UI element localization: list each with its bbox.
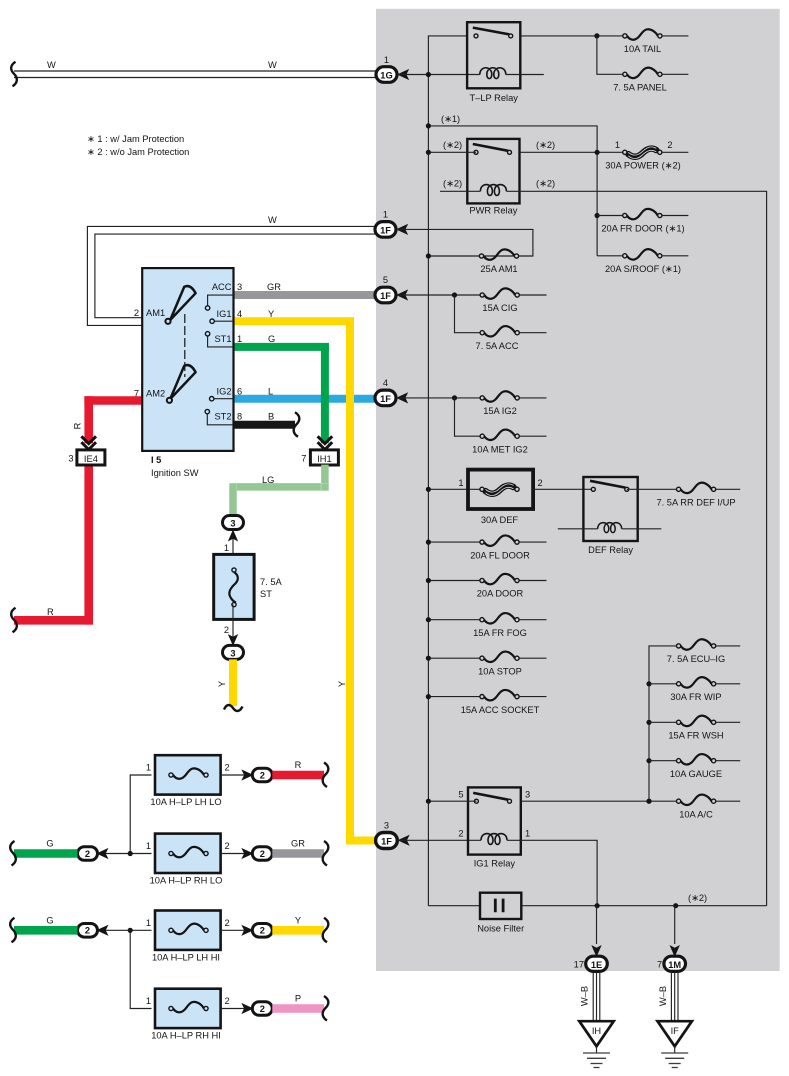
AM2 contact lever (167, 365, 196, 403)
IG1 contact (210, 319, 233, 323)
fuse 15A FR WSH (646, 720, 651, 725)
connector 3 (upper) (223, 516, 244, 530)
wire main trunk from 1G (428, 36, 467, 906)
svg-text:1: 1 (384, 55, 389, 65)
fuse 10A TAIL (623, 29, 662, 39)
svg-text:17: 17 (574, 960, 584, 970)
svg-text:2: 2 (260, 770, 265, 780)
branch wire pin1 pair (130, 775, 151, 854)
label 7.5A ST (260, 577, 283, 599)
arrow into connector (96, 848, 108, 859)
svg-text:IG1: IG1 (217, 309, 232, 319)
svg-text:ACC: ACC (212, 282, 232, 292)
wire R (272, 771, 324, 780)
fuse 30A DEF element (480, 484, 519, 496)
wire trunk to IG1 contact (428, 800, 476, 802)
wire LG (233, 465, 325, 516)
connector 1M (664, 956, 686, 971)
svg-text:1F: 1F (381, 837, 392, 847)
svg-text:IG2: IG2 (217, 387, 232, 397)
svg-text:IH1: IH1 (317, 454, 331, 464)
svg-text:L: L (268, 387, 273, 397)
wire break curl (B end) (294, 412, 300, 437)
svg-text:∗ 1 : w/ Jam Protection: ∗ 1 : w/ Jam Protection (87, 134, 184, 144)
wire G (14, 926, 78, 935)
svg-text:2: 2 (225, 841, 230, 851)
svg-text:Y: Y (268, 309, 274, 319)
fuse 10A H–LP RH HI element (169, 1002, 208, 1012)
wire break curl (Y) (323, 918, 329, 943)
relay PWR coil (480, 185, 506, 196)
svg-text:7. 5A ECU–IG: 7. 5A ECU–IG (667, 654, 725, 664)
svg-text:1F: 1F (380, 394, 391, 404)
svg-text:2: 2 (667, 140, 672, 150)
svg-text:1: 1 (146, 918, 151, 928)
wire break curl (W left end) (11, 62, 17, 87)
fuse 15A FR FOG (428, 619, 480, 621)
svg-text:7. 5A: 7. 5A (260, 577, 283, 587)
wire 30A DEF to DEF relay (533, 488, 593, 490)
wire to left connector 2 (98, 929, 131, 931)
wire W to AM1 (hollow) (87, 226, 375, 325)
wire break squiggle (Y end) (224, 705, 243, 711)
relay PWR contact (473, 144, 512, 154)
svg-text:10A STOP: 10A STOP (478, 666, 522, 676)
svg-text:Y: Y (217, 681, 227, 687)
wire B (ST2) (233, 421, 295, 429)
svg-text:3: 3 (525, 790, 530, 800)
relay T-LP body (467, 22, 520, 88)
junction (594, 33, 599, 38)
svg-text:10A H–LP RH HI: 10A H–LP RH HI (151, 1031, 221, 1041)
fuse 20A FL DOOR (428, 541, 480, 543)
arrow into connector (241, 1003, 253, 1014)
fuse 25A AM1 (479, 249, 518, 259)
svg-text:1: 1 (458, 478, 463, 488)
svg-text:2: 2 (225, 918, 230, 928)
ground symbol (674, 1046, 676, 1053)
connector 3 (lower) (223, 645, 244, 659)
svg-text:IH: IH (592, 1026, 601, 1036)
connector 1E (586, 956, 608, 971)
svg-text:2: 2 (85, 849, 90, 859)
svg-text:4: 4 (383, 378, 388, 388)
svg-text:Noise Filter: Noise Filter (477, 924, 524, 934)
svg-text:GR: GR (267, 282, 281, 292)
svg-text:2: 2 (260, 926, 265, 936)
svg-text:6: 6 (237, 387, 242, 397)
svg-text:R: R (295, 760, 302, 770)
svg-text:(∗2): (∗2) (443, 179, 462, 189)
fuse 7.5A PANEL (623, 68, 662, 78)
wire G (ST1) (233, 344, 325, 444)
svg-text:1F: 1F (380, 225, 391, 235)
svg-text:G: G (46, 839, 53, 849)
arrow at 1F5 (396, 289, 408, 300)
fuse 10A H–LP LH HI body (155, 911, 221, 950)
svg-text:25A AM1: 25A AM1 (480, 264, 517, 274)
IG2 contact (210, 397, 234, 401)
wire from ST fuse with down arrow (228, 605, 238, 646)
wire down to 1M (674, 906, 676, 944)
fusebox area background (376, 9, 780, 971)
svg-text:2: 2 (260, 1004, 265, 1014)
fuse 10A H–LP RH LO body (155, 834, 221, 873)
svg-text:7: 7 (301, 454, 306, 464)
svg-text:ST: ST (260, 589, 272, 599)
wire (*1) branch (428, 126, 597, 256)
fuse 10A H–LP LH HI element (169, 924, 208, 934)
junction (128, 928, 133, 933)
svg-text:10A TAIL: 10A TAIL (624, 44, 661, 54)
wire PWR coil line (440, 191, 767, 905)
wire L (IG2) (233, 395, 376, 403)
svg-text:GR: GR (291, 839, 305, 849)
wire break curl (G) (10, 841, 16, 866)
svg-text:20A FL DOOR: 20A FL DOOR (470, 550, 530, 560)
svg-text:IE4: IE4 (84, 454, 98, 464)
wire to connector 2 (right) (221, 929, 245, 931)
svg-text:(∗2): (∗2) (536, 140, 555, 150)
svg-text:2: 2 (225, 763, 230, 773)
wire G (14, 849, 78, 858)
svg-text:LG: LG (262, 475, 274, 485)
svg-text:2: 2 (538, 478, 543, 488)
ground triangle IH (579, 1021, 613, 1046)
svg-text:(∗2): (∗2) (443, 140, 462, 150)
branch to PANEL fuse (597, 36, 623, 74)
junction 1M (673, 903, 678, 908)
connector 1F pin 4 (375, 390, 396, 406)
svg-text:5: 5 (458, 790, 463, 800)
wire 1F3 to IG1 coil (399, 839, 482, 841)
connector 1F pin 3 (376, 833, 398, 849)
wire to left connector 2 (98, 853, 131, 855)
relay DEF body (583, 477, 637, 541)
noise filter capacitor (495, 899, 503, 913)
svg-text:R: R (47, 607, 54, 617)
svg-text:20A DOOR: 20A DOOR (477, 589, 524, 599)
wire GR (ACC) (233, 291, 376, 299)
fuse 15A ACC SOCKET (428, 696, 480, 698)
svg-text:8: 8 (237, 412, 242, 422)
svg-text:1M: 1M (668, 960, 681, 970)
wire to connector 2 (right) (221, 774, 245, 776)
fuse 30A POWER (623, 147, 662, 159)
svg-text:P: P (295, 994, 301, 1004)
wire 1G to trunk (398, 74, 480, 76)
svg-text:2: 2 (225, 996, 230, 1006)
wire W-B triple (593, 971, 600, 1021)
svg-text:2: 2 (85, 926, 90, 936)
wire break curl (R) (323, 763, 329, 788)
ST1 contact (205, 332, 233, 347)
svg-text:2: 2 (224, 625, 229, 635)
svg-text:3: 3 (230, 519, 235, 529)
svg-text:W: W (47, 60, 56, 70)
relay IG1 body (468, 787, 521, 854)
svg-text:W–B: W–B (658, 986, 668, 1006)
junction 1E (595, 903, 600, 908)
svg-text:3: 3 (68, 454, 73, 464)
svg-text:DEF Relay: DEF Relay (588, 545, 633, 555)
svg-text:7. 5A PANEL: 7. 5A PANEL (613, 83, 667, 93)
connector 2 (left, group 1) (78, 847, 98, 861)
svg-text:IF: IF (671, 1026, 680, 1036)
wire W (battery feed, hollow) (14, 71, 377, 78)
switch linkage dashed line (184, 314, 186, 377)
arrow into connector (96, 925, 108, 936)
svg-text:AM1: AM1 (146, 308, 165, 318)
fuse 20A FR DOOR (623, 209, 662, 219)
wire noise filter row (428, 905, 766, 907)
connector 1G pin 1 (376, 67, 397, 83)
wire contact out (520, 35, 623, 37)
fuse 10A GAUGE (646, 758, 651, 763)
arrow at 1F4 (396, 392, 408, 403)
relay PWR body (467, 139, 519, 204)
page arrow into IE4 (81, 436, 96, 449)
wire IG1 coil out (507, 840, 597, 905)
svg-text:G: G (268, 334, 275, 344)
wire trunk to PWR contact (428, 151, 476, 153)
svg-text:3: 3 (237, 282, 242, 292)
junction (426, 72, 431, 77)
svg-text:1: 1 (525, 829, 530, 839)
connector 2 (left, group 2) (78, 924, 98, 938)
wire Y (272, 926, 324, 935)
relay DEF coil (598, 523, 622, 533)
wire Y (IG1) (233, 318, 376, 841)
svg-text:1: 1 (615, 140, 620, 150)
fuse 7. 5A ECU–IG (677, 639, 716, 649)
svg-text:1G: 1G (380, 70, 392, 80)
fuse 10A MET IG2 (480, 430, 519, 440)
wire break curl (P) (323, 996, 329, 1021)
svg-text:2: 2 (260, 849, 265, 859)
svg-text:ST1: ST1 (214, 334, 231, 344)
noise filter body (480, 893, 521, 919)
svg-text:10A MET IG2: 10A MET IG2 (472, 444, 528, 454)
svg-text:1: 1 (146, 841, 151, 851)
fuse 7.5A ACC (480, 326, 519, 336)
svg-text:20A S/ROOF (∗1): 20A S/ROOF (∗1) (605, 264, 681, 274)
svg-text:5: 5 (383, 275, 388, 285)
wire PWR contact to POWER fuse (520, 151, 623, 153)
svg-text:(∗2): (∗2) (688, 893, 707, 903)
note legend (87, 134, 189, 157)
ACC contact (205, 295, 233, 310)
svg-text:7. 5A RR DEF I/UP: 7. 5A RR DEF I/UP (656, 498, 735, 508)
svg-text:1F: 1F (380, 291, 391, 301)
wire trunk to 30A DEF (428, 488, 481, 490)
relay T-LP coil (480, 68, 506, 79)
svg-text:7. 5A ACC: 7. 5A ACC (476, 341, 519, 351)
svg-text:3: 3 (230, 649, 235, 659)
fuse 30A DEF body (468, 470, 533, 509)
svg-text:7: 7 (657, 960, 662, 970)
svg-text:3: 3 (384, 821, 389, 831)
svg-text:W–B: W–B (580, 986, 590, 1006)
wire to ST fuse with up arrow (228, 530, 238, 571)
svg-text:IG1 Relay: IG1 Relay (474, 859, 516, 869)
wire to connector 2 (right) (221, 853, 245, 855)
svg-text:∗ 2 : w/o Jam Protection: ∗ 2 : w/o Jam Protection (87, 147, 189, 157)
svg-text:Y: Y (337, 681, 347, 687)
svg-text:10A H–LP RH LO: 10A H–LP RH LO (150, 876, 223, 886)
connector IE4 (77, 450, 105, 465)
svg-text:15A FR FOG: 15A FR FOG (473, 628, 527, 638)
wire Y (to starter) (229, 659, 237, 706)
svg-text:1: 1 (146, 763, 151, 773)
fuse 7.5A ST element (229, 568, 237, 607)
wire 1F1 to 25A AM1 (397, 229, 533, 256)
svg-text:7: 7 (134, 389, 139, 399)
svg-text:I 5: I 5 (151, 455, 161, 465)
relay DEF coil stubs (558, 528, 662, 530)
svg-text:10A H–LP LH LO: 10A H–LP LH LO (150, 797, 221, 807)
arrow into connector (241, 925, 253, 936)
ST2 contact (205, 409, 233, 424)
relay DEF contact (590, 481, 629, 492)
svg-text:10A A/C: 10A A/C (679, 809, 713, 819)
fuse 20A S/ROOF (623, 249, 662, 259)
junction (128, 851, 133, 856)
svg-text:W: W (268, 215, 277, 225)
connector 2 (right, row 4) (252, 1002, 272, 1016)
svg-text:2: 2 (134, 308, 139, 318)
connector 1F pin 1 (375, 222, 396, 238)
svg-text:10A H–LP LH HI: 10A H–LP LH HI (152, 952, 220, 962)
fuse 10A A/C (646, 799, 651, 804)
svg-text:ST2: ST2 (214, 412, 231, 422)
ground triangle IF (658, 1021, 692, 1046)
fuse 10A H–LP RH HI body (155, 989, 221, 1028)
connector 2 (right, row 2) (252, 847, 272, 861)
fuse 20A DOOR (428, 580, 480, 582)
svg-text:1: 1 (237, 334, 242, 344)
ground symbol (596, 1046, 598, 1053)
wire DEF relay to RR DEF fuse (627, 488, 677, 490)
wire break curl (G) (10, 918, 16, 943)
svg-text:(∗2): (∗2) (536, 179, 555, 189)
wire 1F5 to fuses (397, 294, 480, 296)
arrow at 1F1 (396, 224, 408, 235)
ignition switch I5 body (142, 268, 233, 451)
fuse 30A FR WIP (646, 681, 651, 686)
ignition switch labels (146, 282, 232, 422)
wire right branch column (649, 646, 677, 801)
wire break curl (R end) (11, 608, 17, 633)
svg-text:1: 1 (146, 996, 151, 1006)
svg-text:B: B (268, 412, 274, 422)
svg-text:15A IG2: 15A IG2 (483, 406, 517, 416)
svg-text:30A POWER (∗2): 30A POWER (∗2) (605, 161, 680, 171)
svg-text:(∗1): (∗1) (441, 114, 460, 124)
connector 2 (right, row 3) (252, 924, 272, 938)
wire W-B triple (671, 971, 678, 1021)
page arrow into IH1 (318, 436, 333, 449)
svg-text:PWR Relay: PWR Relay (469, 206, 517, 216)
svg-text:15A FR WSH: 15A FR WSH (668, 731, 723, 741)
relay IG1 contact (473, 793, 511, 803)
fuse 15A IG2 (480, 391, 519, 401)
branch wire pin1 pair (130, 930, 151, 1008)
connector 2 (right, row 1) (252, 768, 272, 782)
connector IH1 (310, 450, 338, 465)
fuse 7.5A RR DEF I/UP (677, 483, 716, 493)
wire P (272, 1004, 324, 1013)
svg-text:1: 1 (383, 210, 388, 220)
arrow into connector (241, 848, 253, 859)
svg-text:1E: 1E (591, 960, 602, 970)
svg-text:1: 1 (224, 543, 229, 553)
wire IG1 contact to A/C fuse (521, 800, 649, 802)
wire to connector 2 (right) (221, 1008, 245, 1010)
AM1 contact lever (165, 286, 195, 324)
svg-text:30A DEF: 30A DEF (481, 515, 519, 525)
svg-text:R: R (73, 422, 83, 429)
fuse 10A H–LP LH LO element (169, 768, 208, 778)
fuse 7.5A ST body (214, 554, 254, 619)
svg-text:2: 2 (458, 829, 463, 839)
fuse 10A H–LP LH LO body (155, 755, 221, 794)
fuse 10A H–LP RH LO element (169, 847, 208, 857)
wire R (AM2) (14, 396, 142, 620)
svg-text:4: 4 (237, 309, 242, 319)
wire 1F4 to fuses (397, 397, 480, 399)
svg-text:G: G (46, 915, 53, 925)
connector 1F pin 5 (375, 287, 396, 303)
svg-text:T–LP Relay: T–LP Relay (469, 93, 518, 103)
svg-text:10A GAUGE: 10A GAUGE (670, 769, 722, 779)
arrow at 1F3 (398, 835, 410, 846)
svg-text:W: W (268, 60, 277, 70)
svg-text:15A ACC SOCKET: 15A ACC SOCKET (461, 705, 540, 715)
svg-text:20A FR DOOR (∗1): 20A FR DOOR (∗1) (601, 224, 684, 234)
arrow at 1G (397, 69, 409, 80)
svg-text:AM2: AM2 (146, 389, 165, 399)
wire down to 1E (596, 906, 598, 944)
arrow into connector (241, 769, 253, 780)
relay T-LP coil out (506, 74, 544, 76)
fuse 10A STOP (428, 657, 480, 659)
svg-text:15A CIG: 15A CIG (482, 303, 517, 313)
relay T-LP contact (473, 28, 513, 38)
relay IG1 coil (481, 834, 507, 845)
svg-text:Y: Y (295, 915, 301, 925)
fuse 15A CIG (480, 288, 519, 298)
svg-text:30A FR WIP: 30A FR WIP (670, 692, 721, 702)
wire GR (272, 849, 324, 858)
svg-text:Ignition SW: Ignition SW (151, 468, 199, 478)
wire break curl (GR) (323, 841, 329, 866)
